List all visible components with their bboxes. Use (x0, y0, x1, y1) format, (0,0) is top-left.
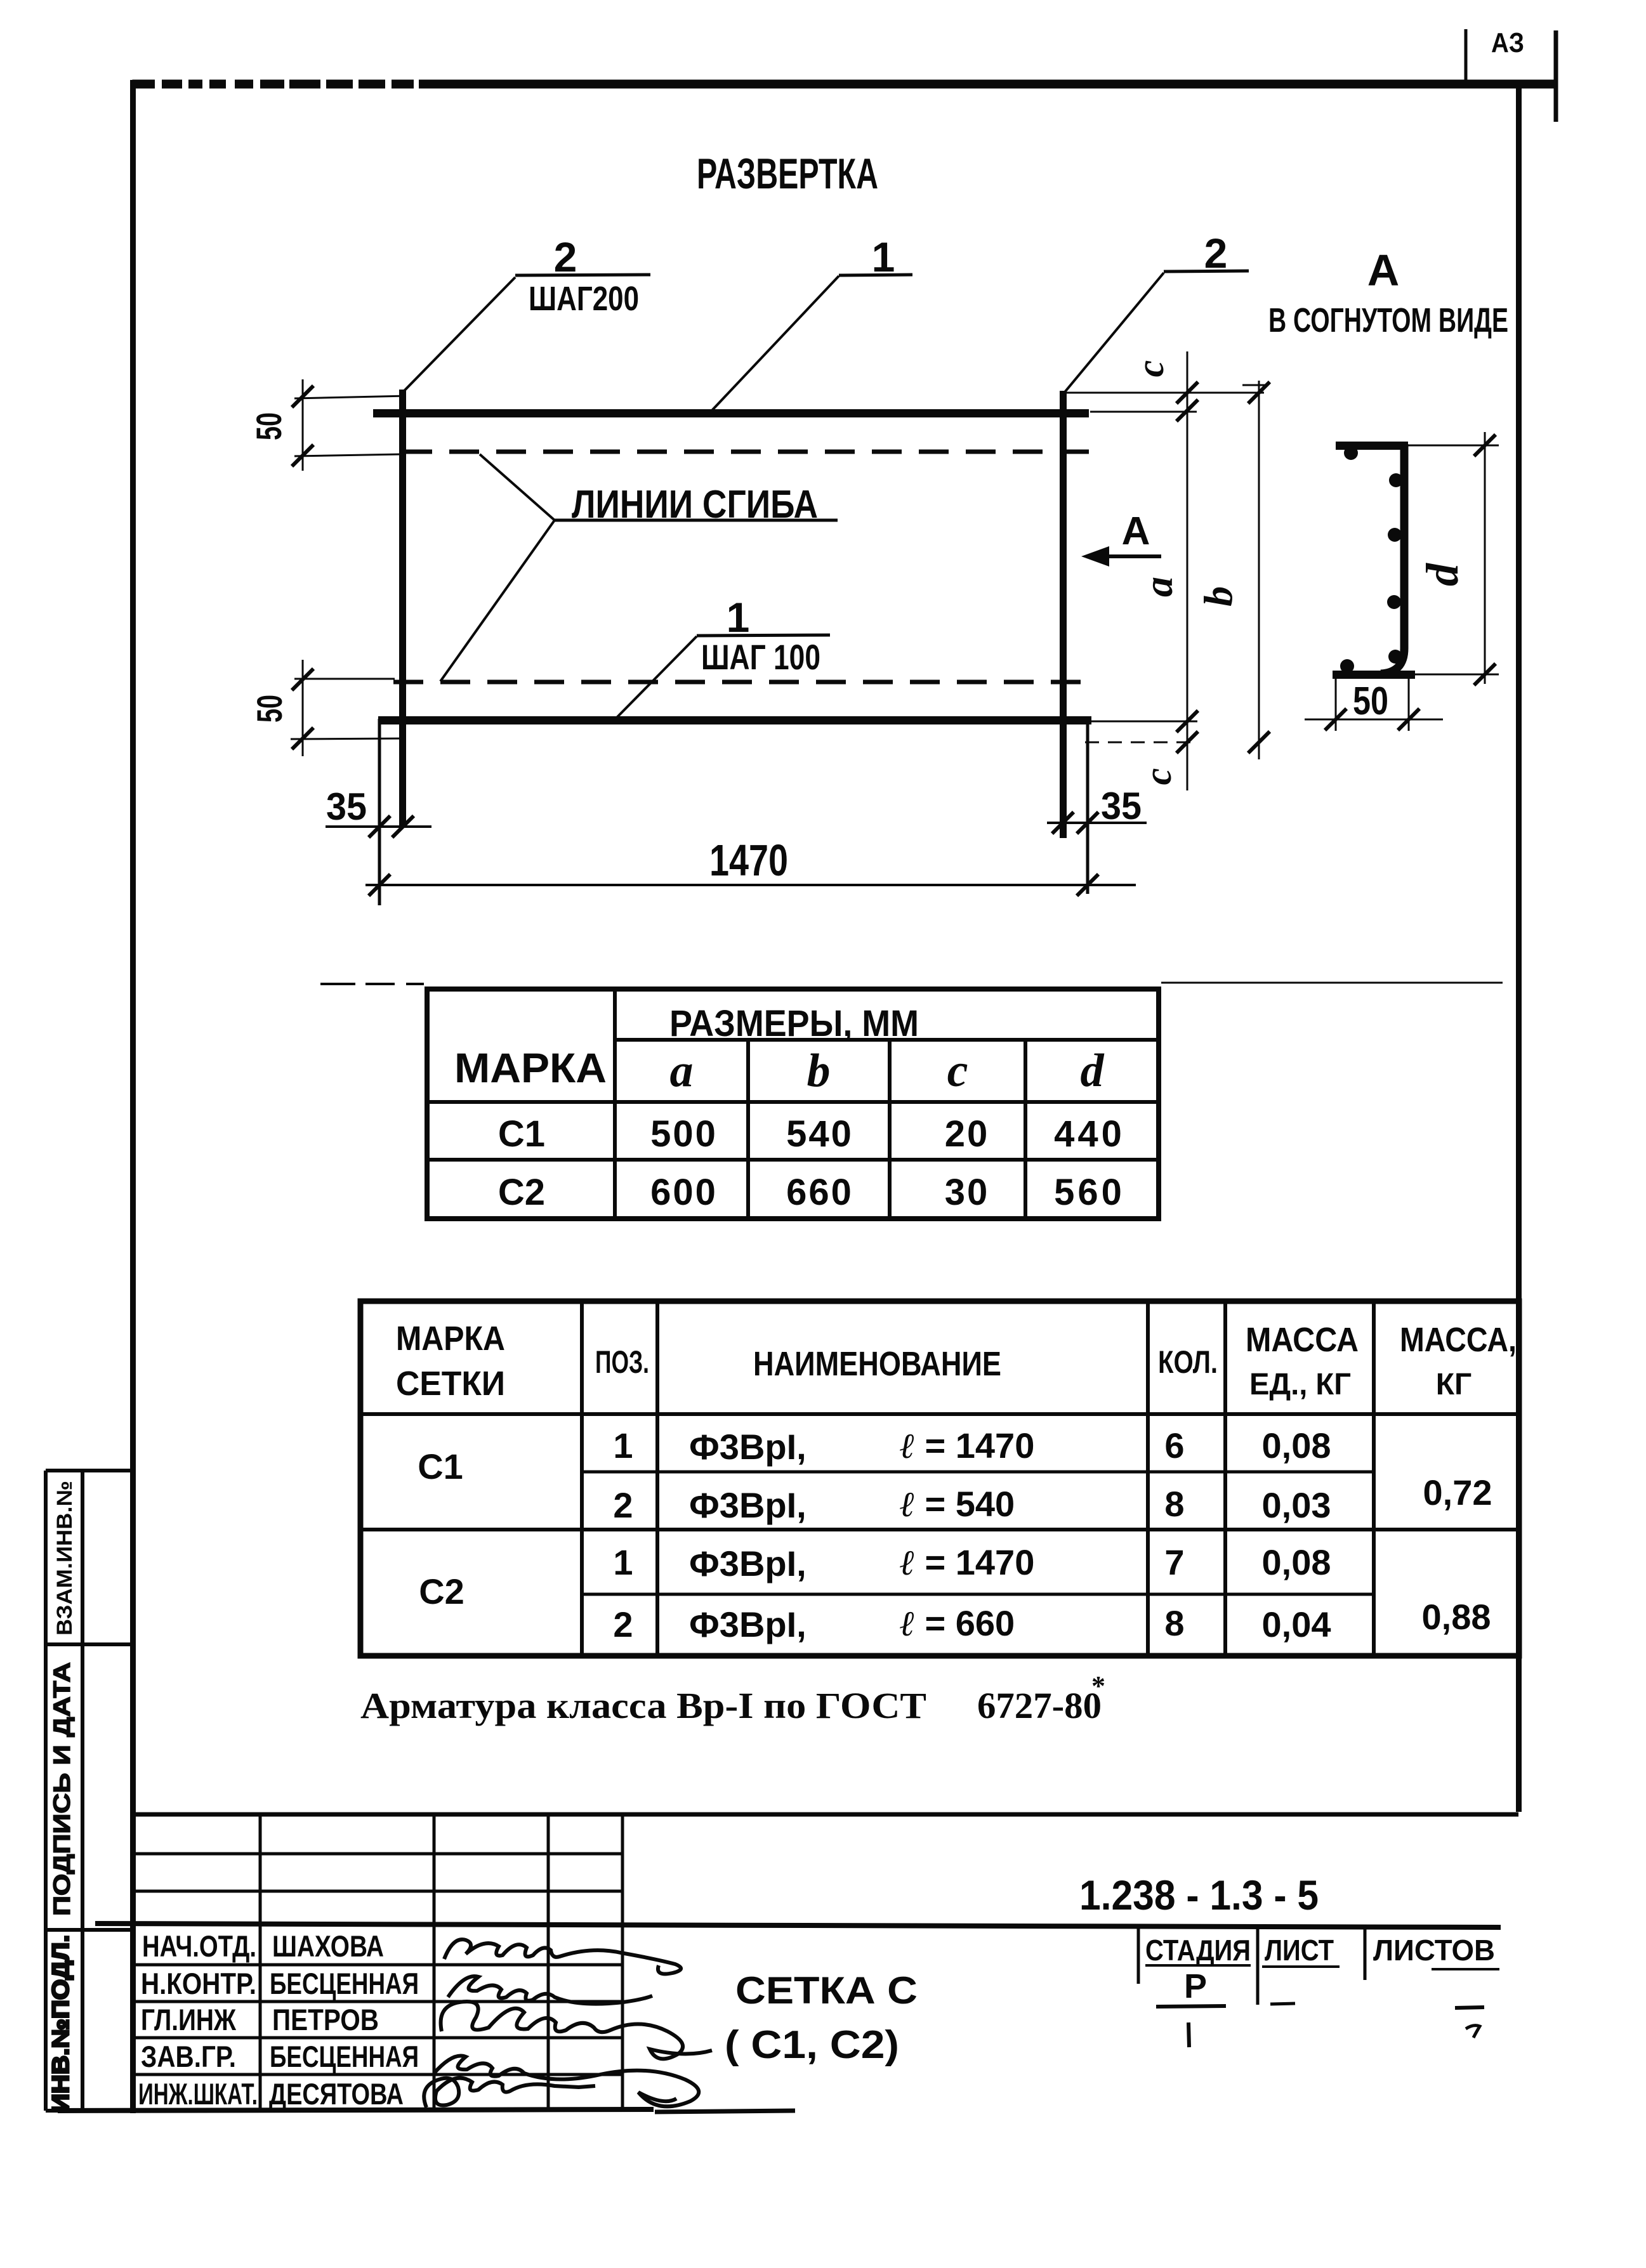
right hook line (1086, 720, 1090, 894)
signature шахова (444, 1939, 681, 1974)
right extension top (1063, 392, 1264, 394)
left hook line (378, 719, 381, 905)
svg-text:МАРКА: МАРКА (396, 1320, 505, 1358)
svg-text:660: 660 (786, 1172, 853, 1213)
svg-text:ГЛ.ИНЖ: ГЛ.ИНЖ (141, 2003, 236, 2036)
svg-text:С2: С2 (419, 1571, 464, 1611)
svg-text:c: c (1129, 360, 1171, 377)
dim 35 left (326, 825, 431, 828)
svg-text:0,08: 0,08 (1262, 1542, 1331, 1582)
svg-text:8: 8 (1164, 1484, 1184, 1524)
svg-text:ШАГ200: ШАГ200 (529, 280, 639, 318)
svg-text:d: d (1081, 1045, 1105, 1097)
table1 header row lines (615, 1038, 1159, 1042)
svg-text:0,08: 0,08 (1262, 1426, 1331, 1465)
svg-text:600: 600 (650, 1172, 718, 1213)
svg-text:С2: С2 (498, 1172, 545, 1213)
svg-text:6727-80: 6727-80 (977, 1685, 1102, 1726)
svg-text:КОЛ.: КОЛ. (1158, 1344, 1218, 1380)
svg-text:А: А (1122, 509, 1150, 553)
dim line c-a-c (1187, 351, 1188, 790)
svg-text:ПЕТРОВ: ПЕТРОВ (272, 2003, 379, 2036)
svg-text:0,72: 0,72 (1423, 1472, 1492, 1512)
svg-text:8: 8 (1164, 1603, 1184, 1643)
MESH-DRAWING (373, 230, 1249, 905)
svg-text:А: А (1367, 246, 1400, 295)
wire dots (1344, 446, 1358, 460)
svg-text:ИНЖ.ШКАТ.: ИНЖ.ШКАТ. (138, 2077, 258, 2111)
fold line bottom (dashed) (393, 680, 1086, 685)
table2 row lines (360, 1412, 1519, 1416)
svg-text:ПОЗ.: ПОЗ. (595, 1344, 649, 1380)
signature бесценная (448, 1976, 652, 2003)
svg-text:МАРКА: МАРКА (454, 1044, 607, 1091)
svg-text:СЕТКИ: СЕТКИ (396, 1365, 505, 1403)
svg-text:500: 500 (650, 1113, 718, 1155)
svg-text:1: 1 (872, 233, 895, 280)
svg-text:С1: С1 (498, 1113, 545, 1155)
svg-text:Ф3ВрI,: Ф3ВрI, (689, 1427, 807, 1467)
svg-text:2: 2 (1204, 230, 1228, 277)
svg-text:АЗ: АЗ (1491, 27, 1524, 58)
svg-text:СЕТКА С: СЕТКА С (735, 1969, 918, 2012)
svg-text:ЛИСТ: ЛИСТ (1265, 1934, 1334, 1967)
svg-text:0,04: 0,04 (1262, 1604, 1331, 1644)
dim 1470 (365, 884, 1136, 886)
corner trim tick top-right (1465, 29, 1468, 82)
svg-text:ШАХОВА: ШАХОВА (272, 1929, 384, 1963)
svg-text:2: 2 (554, 233, 577, 280)
svg-text:Арматура класса Вр-I по ГОСТ: Арматура класса Вр-I по ГОСТ (360, 1685, 926, 1726)
svg-text:2: 2 (613, 1604, 633, 1644)
svg-text:1470: 1470 (709, 836, 788, 885)
svg-text:ℓ = 660: ℓ = 660 (900, 1603, 1015, 1644)
short vertical at sheet corner (1554, 30, 1558, 122)
svg-text:МАССА: МАССА (1246, 1321, 1359, 1359)
svg-text:Ф3ВрI,: Ф3ВрI, (689, 1544, 807, 1583)
table1 outer border (427, 989, 1159, 1219)
svg-text:b: b (1195, 586, 1241, 606)
dim 50 bottom-left (294, 678, 395, 680)
svg-text:c: c (947, 1045, 968, 1097)
svg-text:ℓ = 540: ℓ = 540 (900, 1484, 1015, 1524)
bent mesh bottom flange (1333, 671, 1415, 679)
signature бесценная 2 (434, 2055, 699, 2106)
dim 50 top-left (294, 396, 406, 398)
svg-text:НАИМЕНОВАНИЕ: НАИМЕНОВАНИЕ (753, 1345, 1001, 1383)
table2 outer border (360, 1301, 1519, 1656)
svg-text:С1: С1 (418, 1446, 463, 1486)
wire 1 right edge (1060, 391, 1067, 838)
leader 1 (top bar) (711, 276, 839, 412)
wire 1 left edge (399, 390, 406, 827)
svg-text:a: a (1136, 577, 1181, 597)
svg-text:560: 560 (1054, 1172, 1125, 1213)
svg-text:a: a (670, 1045, 694, 1097)
svg-text:ШАГ 100: ШАГ 100 (701, 637, 820, 677)
svg-text:1: 1 (613, 1542, 633, 1582)
svg-text:2: 2 (613, 1485, 633, 1525)
svg-text:КГ: КГ (1436, 1368, 1472, 1401)
svg-text:d: d (1417, 563, 1468, 586)
bent mesh web (1381, 444, 1404, 674)
svg-text:СТАДИЯ: СТАДИЯ (1145, 1934, 1251, 1967)
svg-text:( С1, С2): ( С1, С2) (725, 2023, 899, 2067)
svg-text:c: c (1137, 768, 1179, 785)
svg-text:20: 20 (945, 1113, 990, 1155)
svg-text:1: 1 (727, 594, 750, 641)
TITLE-TEXTS (697, 150, 1508, 339)
svg-text:Ф3ВрI,: Ф3ВрI, (689, 1485, 807, 1525)
leader 2 (шаг 200) (404, 277, 515, 391)
svg-text:0,88: 0,88 (1422, 1597, 1491, 1637)
leader 2 right (1065, 273, 1164, 392)
table1 column lines (613, 989, 617, 1219)
dim line b with ticks (1242, 384, 1268, 386)
dim 35 right (1047, 822, 1147, 824)
svg-text:МАССА,: МАССА, (1400, 1321, 1517, 1359)
right border line (1516, 80, 1522, 1812)
bent mesh top flange (1336, 442, 1408, 450)
left margin boxes (44, 1471, 48, 2111)
top rule of title block (133, 1812, 1518, 1817)
signature десятова (424, 2078, 595, 2107)
svg-text:Н.КОНТР.: Н.КОНТР. (141, 1967, 256, 2000)
svg-text:6: 6 (1164, 1426, 1184, 1465)
revision sub-table (134, 1852, 622, 1856)
svg-text:440: 440 (1054, 1113, 1125, 1155)
svg-text:35: 35 (326, 785, 367, 828)
svg-text:30: 30 (945, 1172, 990, 1213)
svg-text:Ф3ВрI,: Ф3ВрI, (689, 1604, 807, 1644)
svg-text:1: 1 (613, 1426, 633, 1465)
svg-text:РАЗМЕРЫ, ММ: РАЗМЕРЫ, ММ (669, 1003, 919, 1044)
top border line (133, 80, 1557, 88)
main horizontal rule (95, 1924, 1501, 1927)
svg-text:РАЗВЕРТКА: РАЗВЕРТКА (697, 150, 878, 198)
horizontal break line mid-sheet (dash-dot) (320, 983, 355, 985)
svg-text:ДЕСЯТОВА: ДЕСЯТОВА (269, 2077, 404, 2111)
TITLE-BLOCK (46, 1471, 1518, 2113)
svg-text:7: 7 (1164, 1542, 1184, 1582)
GOST-LINE (360, 1670, 1105, 1726)
SHEET-FRAME (130, 27, 1557, 2113)
fold line top (dashed) (402, 450, 1089, 454)
svg-text:ЗАВ.ГР.: ЗАВ.ГР. (141, 2040, 236, 2073)
signature rows (134, 1963, 622, 1967)
bottom rule (58, 2109, 654, 2111)
svg-text:50: 50 (249, 412, 289, 440)
left border line (130, 80, 136, 2113)
svg-text:НАЧ.ОТД.: НАЧ.ОТД. (142, 1929, 256, 1963)
svg-text:ИНВ.№ПОДЛ.: ИНВ.№ПОДЛ. (48, 1935, 74, 2113)
SECTION-VIEW (1305, 432, 1499, 731)
svg-text:50: 50 (249, 695, 289, 723)
svg-text:Р: Р (1184, 1967, 1207, 2005)
svg-text:ЛИСТОВ: ЛИСТОВ (1373, 1934, 1495, 1967)
svg-text:ПОДПИСЬ И ДАТА: ПОДПИСЬ И ДАТА (49, 1662, 75, 1916)
right extension bottom (1091, 721, 1197, 723)
table2 column lines (580, 1301, 584, 1656)
svg-text:БЕСЦЕННАЯ: БЕСЦЕННАЯ (270, 2040, 419, 2073)
svg-text:В СОГНУТОМ ВИДЕ: В СОГНУТОМ ВИДЕ (1268, 301, 1508, 339)
svg-text:БЕСЦЕННАЯ: БЕСЦЕННАЯ (270, 1967, 419, 2000)
стадия-лист table (1137, 1927, 1140, 1984)
dim 50 (section) (1335, 674, 1337, 731)
TABLE-1 (427, 989, 1159, 1219)
svg-text:50: 50 (1353, 679, 1388, 723)
svg-text:540: 540 (786, 1113, 853, 1155)
underline right of signatures (655, 2111, 795, 2112)
dim d (1484, 432, 1486, 684)
wire 2 top edge bar (373, 409, 1089, 417)
svg-text:1.238 - 1.3 - 5: 1.238 - 1.3 - 5 (1079, 1871, 1319, 1918)
wire 2 bottom edge bar (378, 716, 1091, 724)
svg-text:b: b (807, 1045, 831, 1097)
signature петров (441, 2002, 712, 2059)
TABLE-2 (360, 1301, 1519, 1656)
svg-text:*: * (1091, 1670, 1105, 1701)
svg-text:ℓ = 1470: ℓ = 1470 (900, 1542, 1034, 1583)
svg-text:ВЗАМ.ИНВ.№: ВЗАМ.ИНВ.№ (53, 1481, 77, 1635)
svg-text:0,03: 0,03 (1262, 1485, 1331, 1525)
svg-text:ЕД., КГ: ЕД., КГ (1249, 1368, 1351, 1401)
svg-text:ℓ = 1470: ℓ = 1470 (900, 1426, 1034, 1466)
svg-text:35: 35 (1101, 785, 1142, 827)
